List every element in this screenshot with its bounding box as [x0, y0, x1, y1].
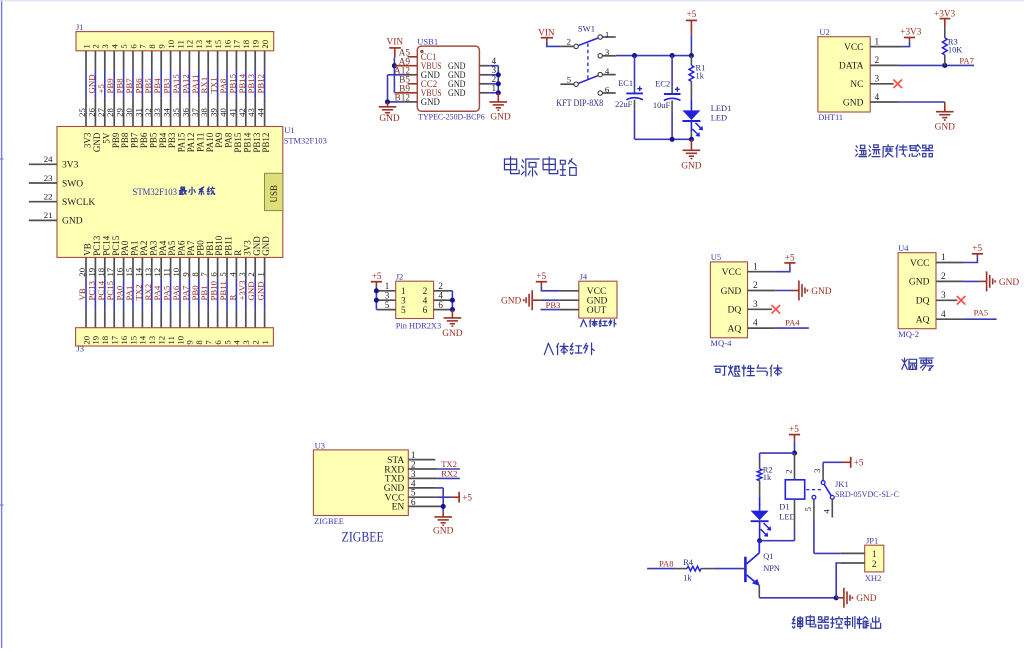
svg-text:SWCLK: SWCLK — [62, 198, 95, 208]
ground GND at U3 — [442, 512, 444, 517]
IC U1 STM32F103 minimal system — [57, 127, 283, 258]
U5 VCC wire to +5 — [748, 271, 776, 273]
svg-text:U4: U4 — [898, 243, 909, 253]
wire bus U1 to J3 — [85, 257, 87, 278]
U2 pin2 DATA wire — [870, 64, 898, 66]
svg-text:SRD-05VDC-SL-C: SRD-05VDC-SL-C — [835, 489, 899, 499]
svg-text:LED: LED — [711, 113, 727, 122]
svg-text:U2: U2 — [819, 27, 829, 37]
svg-text:5: 5 — [567, 75, 572, 85]
connector J1 — [76, 32, 274, 51]
relay pin 3 wire to +5 — [822, 467, 824, 481]
svg-text:DATA: DATA — [839, 62, 864, 72]
relay lever — [824, 484, 831, 496]
svg-text:PA7: PA7 — [959, 55, 974, 65]
svg-text:VIN: VIN — [538, 28, 555, 38]
svg-text:MQ-2: MQ-2 — [898, 329, 919, 339]
svg-text:DQ: DQ — [916, 297, 930, 307]
junction +5 node — [792, 451, 797, 456]
svg-text:XH2: XH2 — [865, 573, 882, 583]
svg-text:SWO: SWO — [62, 179, 83, 189]
svg-text:GND: GND — [379, 114, 400, 124]
svg-text:R4: R4 — [683, 558, 694, 567]
relay contact dashed link — [806, 489, 821, 491]
relay pin 5 wire — [813, 499, 815, 519]
svg-text:4: 4 — [605, 66, 610, 76]
wire gnd rail relay — [759, 597, 836, 599]
junction DATA/R3 — [942, 63, 947, 68]
pin A5 CC1 stub — [408, 56, 418, 58]
svg-text:1k: 1k — [683, 574, 692, 583]
wire +5 down to junction — [794, 442, 796, 453]
ground GND sideways relay — [836, 597, 844, 599]
svg-text:J2: J2 — [396, 271, 404, 281]
svg-text:2: 2 — [941, 272, 946, 282]
svg-text:NC: NC — [850, 80, 863, 90]
junction gnd rail — [834, 595, 839, 600]
svg-text:+5: +5 — [536, 271, 546, 281]
relay contacts — [821, 481, 825, 485]
svg-text:22: 22 — [44, 192, 53, 202]
U3 EN wire — [408, 505, 440, 507]
svg-text:+5: +5 — [854, 458, 864, 468]
svg-text:AQ: AQ — [916, 316, 930, 326]
svg-text:1: 1 — [260, 340, 270, 344]
label power circuit title — [504, 157, 519, 174]
svg-text:USB1: USB1 — [417, 36, 438, 46]
wire JP1 pin2 to gnd — [841, 562, 865, 564]
svg-text:+5: +5 — [687, 9, 697, 19]
svg-text:U1: U1 — [284, 125, 294, 135]
U5 GND wire — [748, 290, 776, 292]
svg-text:6: 6 — [605, 84, 610, 94]
wire U3 gnd vertical — [442, 488, 444, 512]
connector J2 Pin HDR2X3 — [396, 281, 434, 318]
label J4 comment — [581, 320, 587, 327]
junction right gnd — [496, 72, 501, 77]
svg-text:J4: J4 — [580, 271, 588, 281]
label combustible gas — [714, 366, 726, 375]
ground GND right of USB1 — [497, 93, 499, 102]
junction VIN/A9 — [392, 63, 397, 68]
pin B9 VBUS wire — [394, 92, 417, 94]
svg-text:21: 21 — [44, 210, 53, 220]
label relay control output — [792, 617, 802, 629]
svg-text:TXD: TXD — [385, 475, 405, 485]
svg-text:GND: GND — [843, 98, 864, 108]
wire GND to J4 — [542, 299, 560, 301]
svg-text:GND: GND — [681, 161, 702, 171]
svg-text:2: 2 — [872, 560, 877, 570]
svg-text:2: 2 — [567, 37, 571, 47]
svg-text:10K: 10K — [948, 45, 962, 54]
svg-text:GND: GND — [811, 287, 832, 297]
svg-text:3: 3 — [941, 291, 946, 301]
svg-text:PB3: PB3 — [546, 300, 561, 310]
U3 RXD wire net TX2 — [408, 468, 437, 470]
svg-text:+5: +5 — [789, 424, 799, 434]
svg-text:GND: GND — [433, 526, 454, 536]
wire +5 to J2 odd pins — [375, 287, 377, 310]
svg-text:1: 1 — [753, 262, 758, 272]
svg-text:KFT DIP-8X8: KFT DIP-8X8 — [556, 99, 603, 109]
wire PB3 to J4 OUT — [541, 309, 561, 311]
transistor Q1 NPN — [744, 557, 747, 582]
wire bus J1 to U1 — [85, 51, 87, 71]
svg-text:NPN: NPN — [763, 564, 780, 573]
wire coil bottom rail — [760, 540, 795, 542]
wire R4 to Q1 base — [714, 568, 743, 570]
svg-text:JK1: JK1 — [835, 479, 849, 489]
svg-text:+3V3: +3V3 — [934, 8, 955, 18]
svg-text:PB12: PB12 — [261, 133, 271, 153]
label smoke — [902, 358, 917, 369]
pin B5 CC2 stub — [408, 83, 418, 85]
svg-text:VCC: VCC — [910, 259, 930, 269]
svg-text:U3: U3 — [315, 440, 325, 450]
wire PA8 to R4 — [647, 568, 676, 570]
svg-text:10uF: 10uF — [653, 101, 671, 110]
junction top rail — [632, 53, 637, 58]
svg-text:1: 1 — [605, 29, 609, 39]
svg-text:GND: GND — [421, 97, 440, 107]
J2 right pins to gnd — [434, 290, 450, 292]
USB connector USB1 TYPEC-250D-BCP6 — [417, 46, 479, 111]
pin A12 GND wire — [404, 74, 417, 76]
svg-text:+5: +5 — [462, 492, 472, 502]
svg-text:GND: GND — [501, 297, 522, 307]
U3 GND wire — [408, 487, 436, 489]
svg-text:MQ-4: MQ-4 — [710, 338, 732, 348]
svg-text:GND: GND — [261, 236, 271, 256]
svg-text:+3V3: +3V3 — [900, 26, 921, 36]
SW1 lever 5-4 — [578, 76, 598, 84]
SW1 contact circles — [598, 35, 602, 39]
svg-text:+5: +5 — [785, 252, 795, 262]
svg-text:DQ: DQ — [727, 306, 741, 316]
sensor U2 DHT11 — [818, 37, 870, 112]
LED LED1 — [682, 110, 700, 120]
wire VIN to SW1 pin2 — [547, 42, 561, 47]
svg-text:JP1: JP1 — [866, 536, 878, 546]
svg-text:GND: GND — [935, 123, 956, 133]
svg-text:D1: D1 — [779, 502, 789, 511]
resistor R4 1k — [676, 568, 687, 570]
svg-text:EC1: EC1 — [618, 79, 633, 88]
svg-text:GND: GND — [856, 594, 877, 604]
svg-text:AQ: AQ — [727, 324, 741, 334]
svg-text:GND: GND — [999, 278, 1020, 288]
wire +5 rail to R2 — [760, 452, 795, 454]
svg-text:SW1: SW1 — [578, 23, 595, 33]
svg-text:STM32F103: STM32F103 — [133, 188, 178, 198]
svg-text:EC2: EC2 — [655, 80, 670, 89]
resistor R2 1k — [759, 453, 761, 462]
svg-text:5: 5 — [385, 300, 390, 310]
wire A12-B12 gnd — [387, 75, 389, 102]
junction bottom rail — [670, 137, 675, 142]
svg-text:6: 6 — [438, 300, 443, 310]
resistor R3 10K — [944, 27, 946, 38]
svg-text:GND: GND — [721, 287, 742, 297]
power +5 sideways at U3 — [452, 496, 459, 498]
U4 DQ stub with X — [936, 299, 957, 301]
svg-text:GND: GND — [442, 329, 463, 339]
svg-text:4: 4 — [941, 310, 946, 320]
LED D1 — [751, 511, 769, 521]
svg-text:PA8: PA8 — [659, 559, 674, 569]
svg-text:4: 4 — [753, 319, 758, 329]
U3 VCC wire to +5 — [408, 496, 436, 498]
SW1 dashed link — [587, 43, 589, 79]
svg-text:+5: +5 — [372, 271, 382, 281]
svg-text:VCC: VCC — [722, 268, 742, 278]
connector JP1 XH2 — [865, 545, 884, 572]
svg-text:RX2: RX2 — [441, 468, 457, 478]
module U3 ZIGBEE — [313, 450, 408, 516]
svg-text:PA4: PA4 — [785, 318, 800, 328]
svg-text:U5: U5 — [711, 252, 721, 262]
svg-text:VCC: VCC — [844, 43, 864, 53]
svg-text:23: 23 — [44, 173, 53, 183]
USB1 right pins GND wires — [479, 65, 489, 67]
junction EN/gnd — [441, 504, 446, 509]
svg-text:GND: GND — [448, 88, 466, 98]
svg-text:2: 2 — [784, 469, 794, 473]
connector J3 — [76, 328, 274, 346]
capacitor EC1 22uF — [634, 56, 636, 86]
svg-text:3: 3 — [605, 47, 610, 57]
ground GND left of USB1 — [387, 102, 389, 107]
wire relay pin5 to JP1 pin1 — [814, 552, 841, 554]
junction D1/collector — [757, 538, 762, 543]
SW1 pin stubs — [560, 45, 574, 47]
svg-text:6: 6 — [423, 306, 428, 316]
svg-text:3: 3 — [753, 300, 758, 310]
svg-text:1k: 1k — [696, 72, 705, 81]
svg-text:Q1: Q1 — [763, 552, 773, 561]
svg-text:2: 2 — [753, 281, 758, 291]
svg-text:3: 3 — [812, 468, 822, 473]
pin A9 VBUS wire — [394, 65, 417, 67]
svg-text:1k: 1k — [763, 473, 772, 482]
U3 STA stub — [408, 459, 435, 461]
svg-text:4: 4 — [822, 509, 832, 514]
junction J2 right — [450, 298, 455, 303]
svg-text:20: 20 — [260, 39, 270, 48]
svg-text:LED: LED — [779, 512, 795, 521]
U2 pin4 GND wire — [870, 101, 898, 103]
svg-text:TYPEC-250D-BCP6: TYPEC-250D-BCP6 — [418, 112, 485, 122]
ground GND at J2 — [451, 310, 453, 318]
svg-text:ZIGBEE: ZIGBEE — [314, 516, 344, 526]
svg-text:ZIGBEE: ZIGBEE — [342, 529, 384, 545]
svg-text:DHT11: DHT11 — [818, 112, 843, 122]
ground GND sideways at U5 — [792, 290, 799, 292]
svg-text:Pin HDR2X3: Pin HDR2X3 — [396, 321, 442, 331]
svg-text:PA5: PA5 — [974, 308, 989, 318]
svg-text:GND: GND — [909, 278, 930, 288]
wire +5 to J4 VCC — [541, 286, 559, 291]
U4 GND wire — [936, 280, 964, 282]
pin B12 GND wire — [405, 101, 417, 103]
resistor R1 1k — [690, 56, 692, 66]
svg-text:GND: GND — [256, 281, 266, 300]
svg-text:24: 24 — [44, 154, 53, 164]
svg-text:VIN: VIN — [387, 38, 404, 48]
wire emitter down — [758, 585, 760, 598]
svg-text:5: 5 — [803, 506, 813, 511]
svg-text:5: 5 — [401, 306, 406, 316]
wire bottom rail — [635, 138, 692, 140]
junction J2 left — [374, 288, 379, 293]
U5 AQ wire net PA4 — [748, 327, 776, 329]
sensor U5 MQ-4 — [710, 262, 747, 338]
SW1 lever 2-1 — [578, 38, 598, 46]
svg-text:EN: EN — [392, 503, 405, 513]
ground GND at U2 — [944, 102, 946, 112]
svg-text:44: 44 — [256, 108, 266, 117]
svg-text:+5: +5 — [972, 243, 982, 253]
U4 VCC wire to +5 — [936, 262, 964, 264]
U2 pin3 NC stub with no-connect X — [870, 83, 893, 85]
ground GND sideways at U4 — [980, 280, 987, 282]
U2 pin1 VCC wire — [870, 46, 902, 48]
ground GND power circuit — [690, 139, 692, 150]
wire VIN to VBUS pins — [393, 57, 395, 93]
wire top rail — [616, 55, 692, 57]
svg-text:OUT: OUT — [587, 306, 607, 316]
label temperature-humidity sensor — [856, 145, 867, 156]
svg-text:3V3: 3V3 — [62, 161, 79, 171]
U3 TXD wire net RX2 — [408, 477, 437, 479]
svg-text:J1: J1 — [76, 22, 84, 32]
wire +5 down — [690, 35, 692, 56]
label human IR title — [544, 343, 553, 354]
svg-text:LED1: LED1 — [711, 104, 731, 113]
svg-text:GND: GND — [62, 217, 83, 227]
svg-text:GND: GND — [490, 112, 511, 122]
junction B12 gnd — [385, 99, 390, 104]
U5 DQ stub with X — [748, 308, 773, 310]
wire right gnd vertical — [497, 66, 499, 93]
U1 USB sub-box — [265, 173, 283, 210]
svg-text:1: 1 — [872, 550, 877, 560]
svg-text:PB12: PB12 — [256, 74, 266, 94]
svg-text:STM32F103: STM32F103 — [284, 136, 327, 146]
U1 left pins 24-21 — [29, 163, 57, 165]
connector J4 human IR sensor — [579, 281, 617, 318]
relay pin 4 stub — [831, 499, 833, 517]
U4 AQ wire net PA5 — [936, 318, 964, 320]
svg-text:1: 1 — [941, 253, 946, 263]
svg-text:22uF: 22uF — [615, 100, 633, 109]
capacitor EC2 10uF — [671, 56, 673, 87]
sensor U4 MQ-2 — [898, 253, 936, 329]
svg-text:USB: USB — [269, 185, 279, 203]
relay JK1 SRD-05VDC-SL-C coil — [794, 453, 796, 480]
